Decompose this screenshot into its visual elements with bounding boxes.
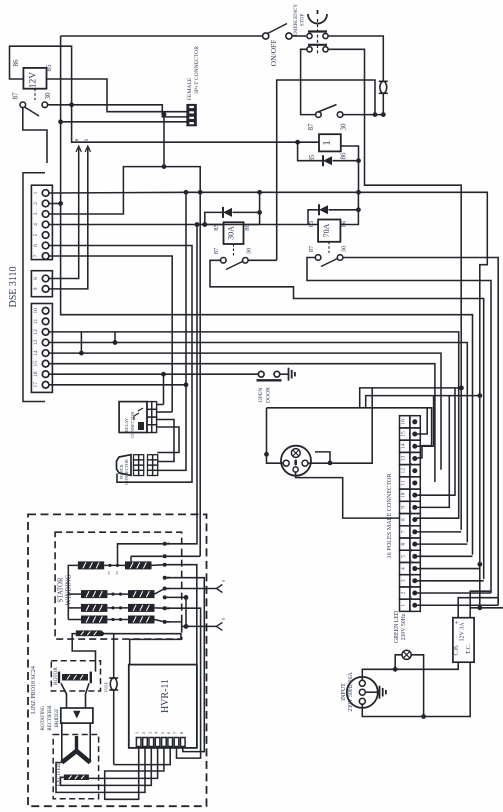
wire T8 arrow [49,148,79,279]
wire pin3 [415,580,484,582]
ground G1 [288,368,290,381]
16p row 10 [400,489,410,501]
wire T12 to pin8 [49,332,459,518]
wire T6 [49,246,192,483]
stator terminal U [163,620,167,624]
wire T13 to pin6 [49,343,468,543]
wire pin6 [415,543,468,545]
wire rail 388 [360,388,462,408]
wire ON/OFF to emergency stop [292,35,306,37]
stator terminal N [163,576,167,580]
16p row 13 [400,452,410,464]
relay R1 coil [319,134,341,151]
svg-text:30A: 30A [227,226,236,240]
wire T15 to pin11 [49,364,435,482]
stator coil row1 [78,561,104,569]
stator coil row4 [81,616,107,624]
svg-text:7: 7 [401,530,407,533]
16p row 16 [400,416,410,428]
wire 30A-30 up-over to R1 30 row [277,80,375,260]
stator coil row2 [81,590,107,598]
svg-text:3: 3 [33,212,39,215]
svg-text:FUSE: FUSE [104,682,109,692]
svg-text:5: 5 [33,233,39,236]
svg-text:1: 1 [135,732,140,734]
wire t1 to HVR top right [165,565,197,664]
wire pin9 [415,396,450,508]
wire relay1 85 long link [72,105,298,142]
svg-text:6: 6 [33,244,39,247]
svg-text:STOP: STOP [300,14,306,27]
DSE terminal 4 [42,221,49,228]
svg-text:4: 4 [33,223,39,226]
relay K1 contact 87-30 [20,102,26,108]
wire T2 riser [61,36,473,555]
relay R1 contact 87-30 [316,112,322,118]
wire mid vertical stub A1 riser [163,374,165,404]
wire HVR6 to fuse line [114,748,171,765]
svg-text:87: 87 [213,247,220,254]
wire socket left [267,408,284,463]
DSE terminal 15 [42,360,49,367]
svg-text:230V 50Hz: 230V 50Hz [401,613,407,640]
svg-text:13: 13 [33,340,39,346]
wire socket right riser [308,388,372,463]
svg-text:T4: T4 [115,571,119,575]
HVR terminal 1 [136,738,141,747]
svg-text:11: 11 [33,319,39,325]
wire R1 85 left [298,141,319,143]
wire T2 stub [49,203,61,205]
svg-text:10: 10 [33,308,39,314]
wire W to HVR7 [165,608,201,758]
svg-text:9: 9 [221,580,226,582]
stator winding boundary [55,532,182,639]
wire 70A 87 down-right to pin2 [307,258,491,592]
DSE terminal 10 [42,308,49,315]
DSE terminal 5 [42,232,49,239]
16p row 6 [400,538,410,550]
svg-text:86: 86 [341,220,348,227]
svg-text:16: 16 [401,419,407,425]
svg-text:15: 15 [33,361,39,367]
wire CB out left [395,662,458,669]
stator terminal t2 [163,554,167,558]
wire HVR1-HVR5 nested U [105,748,164,799]
svg-text:DSE 3110: DSE 3110 [8,266,19,307]
wire to ground [280,373,289,375]
svg-text:9: 9 [401,506,407,509]
wire pin2 [415,592,491,594]
svg-text:C.B.: C.B. [454,644,460,656]
exciter coil [64,775,89,781]
wire t35 up [165,225,197,544]
wire ES row1 to fuse [329,36,384,81]
16p row 5 [400,550,410,562]
svg-text:16 POLES MALE CONNECTOR: 16 POLES MALE CONNECTOR [386,473,393,559]
16p row 12 [400,465,410,477]
wire pin10 [415,388,455,495]
svg-text:3: 3 [401,579,407,582]
DSE terminal 12 [42,329,49,336]
svg-text:1: 1 [401,604,407,607]
wire CB out right [424,662,471,716]
wire pin15 [415,408,427,434]
relay connector coil blob [138,422,144,430]
wire 70A 86 [340,192,358,224]
HVR terminal 2 [143,738,148,747]
stator terminal W [163,606,167,610]
DSE terminal 17 [42,382,49,389]
generator LINZ PRO18 SC24 boundary [28,514,207,806]
relay 30A coil [224,222,244,244]
wire aux out to fuse [102,634,114,678]
wire T12-T13 link [114,332,116,343]
svg-text:17: 17 [33,382,39,388]
socket P1 body [281,446,311,476]
wire 85 to female connector [47,79,187,112]
switch OPEN DOOR [258,371,264,377]
DSE terminal block 10-17 [31,304,52,393]
wire socket-top power rail [267,408,432,458]
svg-text:30: 30 [341,246,348,253]
16p row 15 [400,428,410,440]
DSE outer bracket [23,173,45,402]
svg-text:6: 6 [401,542,407,545]
svg-text:14: 14 [401,443,407,449]
wire ES row2 left down to relay1 87 [301,49,315,114]
wire T9 arrow [49,148,88,289]
16p row 1 [400,599,410,611]
relay K1 coil-contact dashed link [34,89,36,100]
wire 30A 87 down-right to pin3 [210,260,484,579]
wire 87 down [23,108,47,163]
svg-text:10: 10 [401,492,407,498]
HVR terminal 7 [174,738,179,747]
svg-text:HVR-11: HVR-11 [160,679,171,713]
svg-text:EMERGENCY: EMERGENCY [293,4,299,37]
svg-text:11: 11 [401,480,407,486]
socket pin bottom [293,467,298,472]
wire R1 30 contact row [343,114,383,116]
DSE terminal 11 [42,318,49,325]
wire pin13 [415,457,418,459]
16p row 8 [400,514,410,526]
DSE terminal block 8-9 [31,271,52,297]
svg-text:14: 14 [33,350,39,356]
wire pin1 down to CB left [458,598,498,618]
svg-text:16: 16 [33,371,39,377]
wire HVR2 to exciter left arm [56,748,145,793]
wire edge stub [470,607,503,609]
wire mid vertical A [157,192,186,470]
wire pin1 [415,604,498,606]
wire T16 to open door switch [49,373,258,375]
DSE terminal 6 [42,242,49,249]
svg-text:30: 30 [340,123,348,131]
wire row1 centre tap to t35 [118,544,165,566]
wire pin2 down to CB right [470,591,491,618]
circuit breaker C.B. 12V 3A [453,618,474,663]
wire plug earth [365,691,379,693]
lamp GREEN LED [402,650,411,659]
16p row 14 [400,440,410,452]
svg-text:85: 85 [45,64,53,72]
svg-text:GREEN LED: GREEN LED [394,611,400,643]
wire 30A 30 to ES riser [248,259,277,261]
svg-text:INPUT: INPUT [341,683,347,701]
stator terminal t1 [163,563,167,567]
wire T12 branch to T14 [80,332,82,353]
svg-text:1: 1 [33,191,39,194]
svg-text:3P+T CONNECTOR: 3P+T CONNECTOR [194,46,200,94]
svg-text:12: 12 [401,468,407,474]
exciter star winding [62,751,90,763]
wire pin5 [415,555,473,557]
wire bridge to exciter arms [61,723,63,762]
wire T7 [49,256,173,412]
svg-text:13: 13 [401,455,407,461]
svg-text:86: 86 [12,59,20,67]
diode D3 [308,210,318,225]
stator terminal V [163,595,167,599]
HVR terminal 5 [162,738,167,747]
wire plug bottom [362,704,423,716]
HVR terminal 3 [149,738,154,747]
wire T3 up-over [49,167,201,557]
svg-text:RELAY: RELAY [124,417,129,432]
stator coil row3 [81,604,107,612]
wire rows left bus [68,593,81,595]
rotating rectifier bridge [61,708,93,723]
16p row 9 [400,501,410,513]
wire plug top [362,669,395,680]
wire pin14 [415,396,434,447]
relay 70A contact 87-30 [315,255,321,261]
DSE terminal 9 [42,286,49,293]
svg-text:+: + [453,620,461,624]
svg-text:DOOR: DOOR [266,387,272,403]
wire R1 86 to diode and bus [341,146,359,192]
switch ON/OFF [263,33,269,39]
wire 70A 30 right to pin1 [343,258,498,604]
wire rail 395.6 [366,396,480,408]
svg-text:86: 86 [340,152,348,160]
DSE terminal 7 [42,253,49,260]
relay 70A dashed link [328,242,330,253]
socket lamp [291,449,300,458]
wire fuse to relay1 30 row [382,94,384,115]
wire to female connector pin4 [61,121,187,123]
svg-text:FEMALE: FEMALE [187,77,193,100]
rotor boundary [51,661,100,691]
svg-text:87: 87 [308,245,315,252]
svg-text:ON/OFF: ON/OFF [269,40,278,67]
relay 30A contact 87-30 [221,258,227,264]
16p row 4 [400,562,410,574]
wire socket right stub [315,452,330,463]
HVR terminal 6 [168,738,173,747]
stator aux coil [76,630,102,636]
svg-text:70A: 70A [322,223,331,237]
svg-text:87: 87 [12,92,20,100]
DSE terminal 16 [42,371,49,378]
diode D2 [205,212,222,224]
relay K1 coil 12V [23,68,46,89]
16p row 2 [400,587,410,599]
svg-text:2: 2 [401,591,407,594]
DSE terminal 14 [42,350,49,357]
DSE terminal 1 [42,190,49,197]
wire 30A 86 [244,192,260,224]
chevron 8 [165,622,217,627]
DSE terminal 2 [42,200,49,207]
svg-text:LINZ PRO18 SC24: LINZ PRO18 SC24 [31,666,37,714]
connector RELAY CONNECTOR [119,402,147,433]
DSE terminal 13 [42,339,49,346]
connector POWER CONNECTOR [117,455,132,476]
rotor coil [62,674,88,681]
wire LED left [395,655,402,670]
svg-text:T1: T1 [107,571,111,575]
svg-text:1: 1 [321,140,333,146]
svg-text:7: 7 [33,254,39,257]
svg-text:12: 12 [33,329,39,335]
svg-text:RECTIFIER: RECTIFIER [48,705,53,731]
svg-text:2: 2 [33,202,39,205]
wire ON/OFF feed [61,35,263,37]
wire V to U line [165,596,186,598]
wire bus T1 main [49,192,488,608]
wire 30 row to female connector [48,105,187,117]
svg-text:BRIDGE: BRIDGE [55,709,60,728]
wire 70A 85 long from T4 [49,224,318,226]
wire link 164 vertical [163,114,165,166]
socket pin center [294,460,297,466]
emergency stop contact row 2 [307,47,312,52]
relay 30A dashed link [233,244,235,256]
svg-text:OPEN: OPEN [258,388,264,403]
plug INPUT 230V 50Hz 16A [347,677,378,708]
stator terminal t9 [163,587,167,591]
chevron 9 [165,588,217,590]
svg-text:STATOR: STATOR [58,577,65,602]
emergency stop mushroom [308,14,327,24]
fuse F1 [380,81,387,93]
DSE terminal 8 [42,275,49,282]
socket pin left [283,460,289,466]
wire HVR3 to exciter coil left [61,748,152,786]
wire R1 85 to diode [298,142,322,161]
wire LED right [411,655,423,717]
svg-text:30: 30 [44,92,52,100]
wire t2 link [131,555,165,557]
wire socket bottom [296,472,400,518]
svg-text:9: 9 [33,287,39,290]
relay 70A coil [318,220,340,242]
svg-text:CONNECTOR: CONNECTOR [124,459,129,485]
svg-text:30: 30 [246,248,253,255]
svg-text:2: 2 [141,732,146,734]
16p row 7 [400,526,410,538]
wire T17 [49,384,186,386]
rotor funnel to bridge [61,683,67,708]
wire HVR4 to exciter coil right [89,748,158,779]
svg-text:8: 8 [33,277,39,280]
svg-text:12V: 12V [29,72,39,89]
svg-text:5: 5 [401,555,407,558]
wire aux to HVR top left [102,634,181,665]
svg-text:8: 8 [221,618,226,620]
wire t2 up [165,555,201,557]
HVR terminal 4 [155,738,160,747]
socket pin right [302,460,308,466]
16p row 3 [400,575,410,587]
svg-text:T.C.: T.C. [466,643,472,654]
wire A stubs [157,404,164,406]
stator terminal t35 [163,542,167,546]
wire aux left to rotor [72,634,95,672]
exciter boundary [53,735,98,799]
wire 86 loop [10,46,72,105]
diode D1 [323,156,332,165]
svg-text:4: 4 [401,567,407,570]
svg-text:ROTATING: ROTATING [41,705,46,730]
wire ES row2 right to bundle [329,49,462,530]
emergency stop contact row 1 [307,33,312,38]
wire row1 left down [68,565,78,619]
DSE terminal 3 [42,211,49,218]
wire pin4 [415,568,480,570]
HVR terminal 8 [181,738,186,747]
16p row 11 [400,477,410,489]
wire T14 to pin12 [49,353,441,470]
wire N rect to HVR8 [165,578,205,752]
svg-text:87: 87 [307,123,315,131]
wire pin7 [415,531,461,533]
regulator HVR-11 [129,665,197,748]
DSE terminal block 1-7 [31,185,52,259]
svg-text:15: 15 [401,431,407,437]
wire 30A 85 [197,224,224,226]
svg-text:230V 50Hz 16A: 230V 50Hz 16A [348,672,354,712]
svg-text:8: 8 [401,518,407,521]
